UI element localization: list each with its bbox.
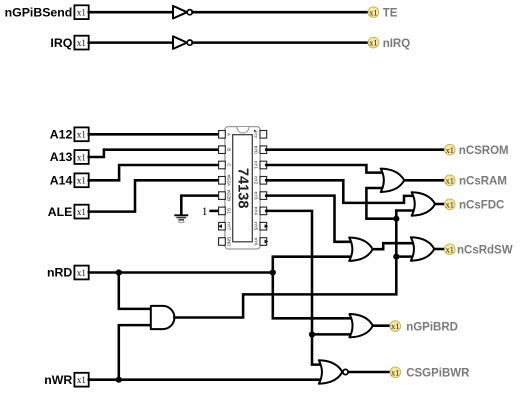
svg-text:x1: x1 [77,207,86,217]
wire AND-net vertical x396 between junctions [395,219,398,257]
svg-text:x1: x1 [77,38,86,48]
svg-text:x1: x1 [446,200,454,209]
wire U1 nY3 to OR gate U6 top input [266,196,352,242]
svg-text:x1: x1 [391,368,399,377]
junction nRD at column x273 [270,269,276,275]
svg-text:nY6: nY6 [254,238,259,246]
IC U1 notch [237,127,249,133]
junction AND-net at y257 [393,254,399,260]
svg-text:nG2A: nG2A [227,175,232,186]
IC U1 pin nY6 direction arrow [265,240,269,244]
svg-text:A14: A14 [50,174,73,188]
input port box IRQ (x1) [74,36,88,50]
OR gate U8 (nGPiBRD) [349,314,373,337]
input port box nWR (x1) [74,373,88,387]
svg-text:nCsRAM: nCsRAM [459,176,507,188]
OR gate U5 (nCsRAM) [381,169,405,192]
wire nY4 branch to NOR gate U9 top input [312,334,323,364]
svg-text:x1: x1 [391,322,399,331]
IC U1 left pin labels [227,133,232,247]
svg-text:nGPiBSend: nGPiBSend [5,5,73,19]
wire AND-net to OR gate U10 bottom input [396,255,413,258]
svg-text:A13: A13 [50,150,73,164]
input port box A12 (x1) [74,127,88,141]
IC U1 right pin boxes (pins 16-9) [260,131,267,246]
input port box nRD (x1) [74,266,88,280]
OR gate U6 (nY3 + nRD) [349,238,373,261]
svg-text:G1: G1 [227,208,232,214]
svg-text:1: 1 [202,206,208,218]
svg-text:nY4: nY4 [254,207,259,215]
svg-text:GND: GND [227,237,232,247]
wire nGPiBSend to inverter U2 input [89,11,174,14]
svg-text:nG2B: nG2B [227,190,232,201]
svg-text:A: A [227,133,232,136]
wire AND-net to OR gate U5 bottom input [366,188,396,219]
IC U1 pin nY7 direction arrow [218,224,222,228]
wire OR U5 output to nCsRAM [404,179,444,182]
wire U1 nY4 to column x313 [266,211,312,335]
wire NOR U9 output to CSGPiBWR [349,371,391,374]
svg-text:x1: x1 [446,245,454,254]
IC U1 left pin boxes (pins 1-8) [219,131,226,246]
svg-text:x1: x1 [369,8,377,17]
svg-text:nY2: nY2 [254,176,259,184]
wire nRD branch to AND gate U4 top input [119,273,153,309]
input port box A14 (x1) [74,173,88,187]
input port box ALE (x1) [74,205,88,219]
svg-text:nY1: nY1 [254,161,259,169]
svg-text:74138: 74138 [235,168,251,209]
wire OR U8 output to nGPiBRD [373,324,390,327]
OR gate U10 (nCsRdSW) [411,237,435,260]
junction AND-net at y219 [393,216,399,222]
inverter U2 (nGPiBSend to TE) [173,6,192,19]
IC U1 pin 16 marker dot [254,130,256,132]
ground symbol [174,215,188,222]
svg-text:CSGPiBWR: CSGPiBWR [406,368,470,380]
svg-text:x1: x1 [77,375,86,385]
svg-text:ALE: ALE [48,205,73,219]
IC U1 inner rectangle [233,135,253,242]
OR gate U7 (nCsFDC) [412,192,436,215]
svg-text:x1: x1 [446,146,454,155]
svg-text:x1: x1 [369,39,377,48]
svg-text:nGPiBRD: nGPiBRD [406,322,458,334]
wire inverter U2 output to TE [193,11,369,14]
svg-text:nWR: nWR [44,373,72,387]
svg-text:nY0: nY0 [254,146,259,154]
svg-text:nY7: nY7 [227,222,232,230]
junction nRD at AND branch [116,269,122,275]
wire inverter U3 output to nIRQ [193,41,369,44]
output terminal TE (x1) [368,7,398,20]
wire nRD branch to OR gate U6 bottom input [273,257,353,273]
output terminal nCSROM (x1) [445,144,509,157]
svg-text:IRQ: IRQ [50,36,72,50]
svg-text:x1: x1 [77,152,86,162]
inverter U3 (IRQ to nIRQ) [173,36,192,49]
input port box A13 (x1) [74,150,88,164]
wire constant 1 to U1 pin G1 [211,210,219,213]
wire OR U10 output to nCsRdSW [434,248,444,251]
wire U1 nY1 to OR gate U5 top input [266,165,383,173]
wire A12 to U1 pin A [89,133,219,136]
wire nY4 branch to OR gate U8 bottom input [312,333,353,336]
wire AND U4 output to junction column x396 [174,257,396,318]
NOR gate U9 (CSGPiBWR) [319,360,348,383]
wire IRQ to inverter U3 input [89,41,174,44]
svg-text:nIRQ: nIRQ [383,38,411,50]
IC U1 right pin labels [254,131,259,246]
svg-text:B: B [227,148,232,151]
IC U1 pin nY5 direction arrow [265,224,269,228]
output terminal nCsRAM (x1) [445,175,507,188]
svg-text:TE: TE [383,8,398,20]
input port box nGPiBSend (x1) [74,5,88,19]
AND gate U4 (nRD AND nWR) [151,306,175,329]
svg-text:x1: x1 [446,176,454,185]
output terminal nGPiBRD (x1) [390,321,458,334]
wire U1 nY2 to OR gate U7 top input [266,180,413,203]
svg-text:nCsRdSW: nCsRdSW [457,245,513,257]
junction nWR at AND branch [116,377,122,383]
wire U1 nY0 to nCSROM [266,148,444,151]
svg-text:x1: x1 [77,8,86,18]
wire A13 to U1 pin B [89,150,219,157]
wire nWR main run to NOR gate U9 bottom input [89,378,323,381]
svg-text:nY5: nY5 [254,222,259,230]
svg-text:C: C [227,163,232,166]
output terminal nIRQ (x1) [368,37,410,50]
junction nY4 at gate U8 input [309,331,315,337]
wire nWR branch to AND gate U4 bottom input [119,325,153,380]
svg-text:nCSROM: nCSROM [459,145,509,157]
svg-text:nRD: nRD [47,266,72,280]
output terminal CSGPiBWR (x1) [390,367,470,380]
svg-text:Vcc: Vcc [254,131,259,139]
wire A14 to U1 pin C [89,165,219,180]
svg-text:x1: x1 [77,176,86,186]
wire ALE to U1 pin nG2A [89,180,219,211]
output terminal nCsRdSW (x1) [445,244,513,257]
wire AND-net to OR gate U7 bottom input [396,211,413,219]
svg-text:x1: x1 [77,130,86,140]
wire OR U6 output to OR gate U10 top input [373,243,413,249]
output terminal nCsFDC (x1) [445,199,505,212]
svg-text:nCsFDC: nCsFDC [459,200,504,212]
svg-text:nY3: nY3 [254,192,259,200]
wire nRD branch to OR gate U8 top input [273,273,353,319]
svg-text:A12: A12 [50,128,73,142]
IC U1 74138 body [225,127,260,249]
wire nRD main run [89,271,273,274]
wire ground to U1 pin nG2B [181,196,218,215]
svg-text:x1: x1 [77,268,86,278]
wire OR U7 output to nCsFDC [435,203,444,206]
